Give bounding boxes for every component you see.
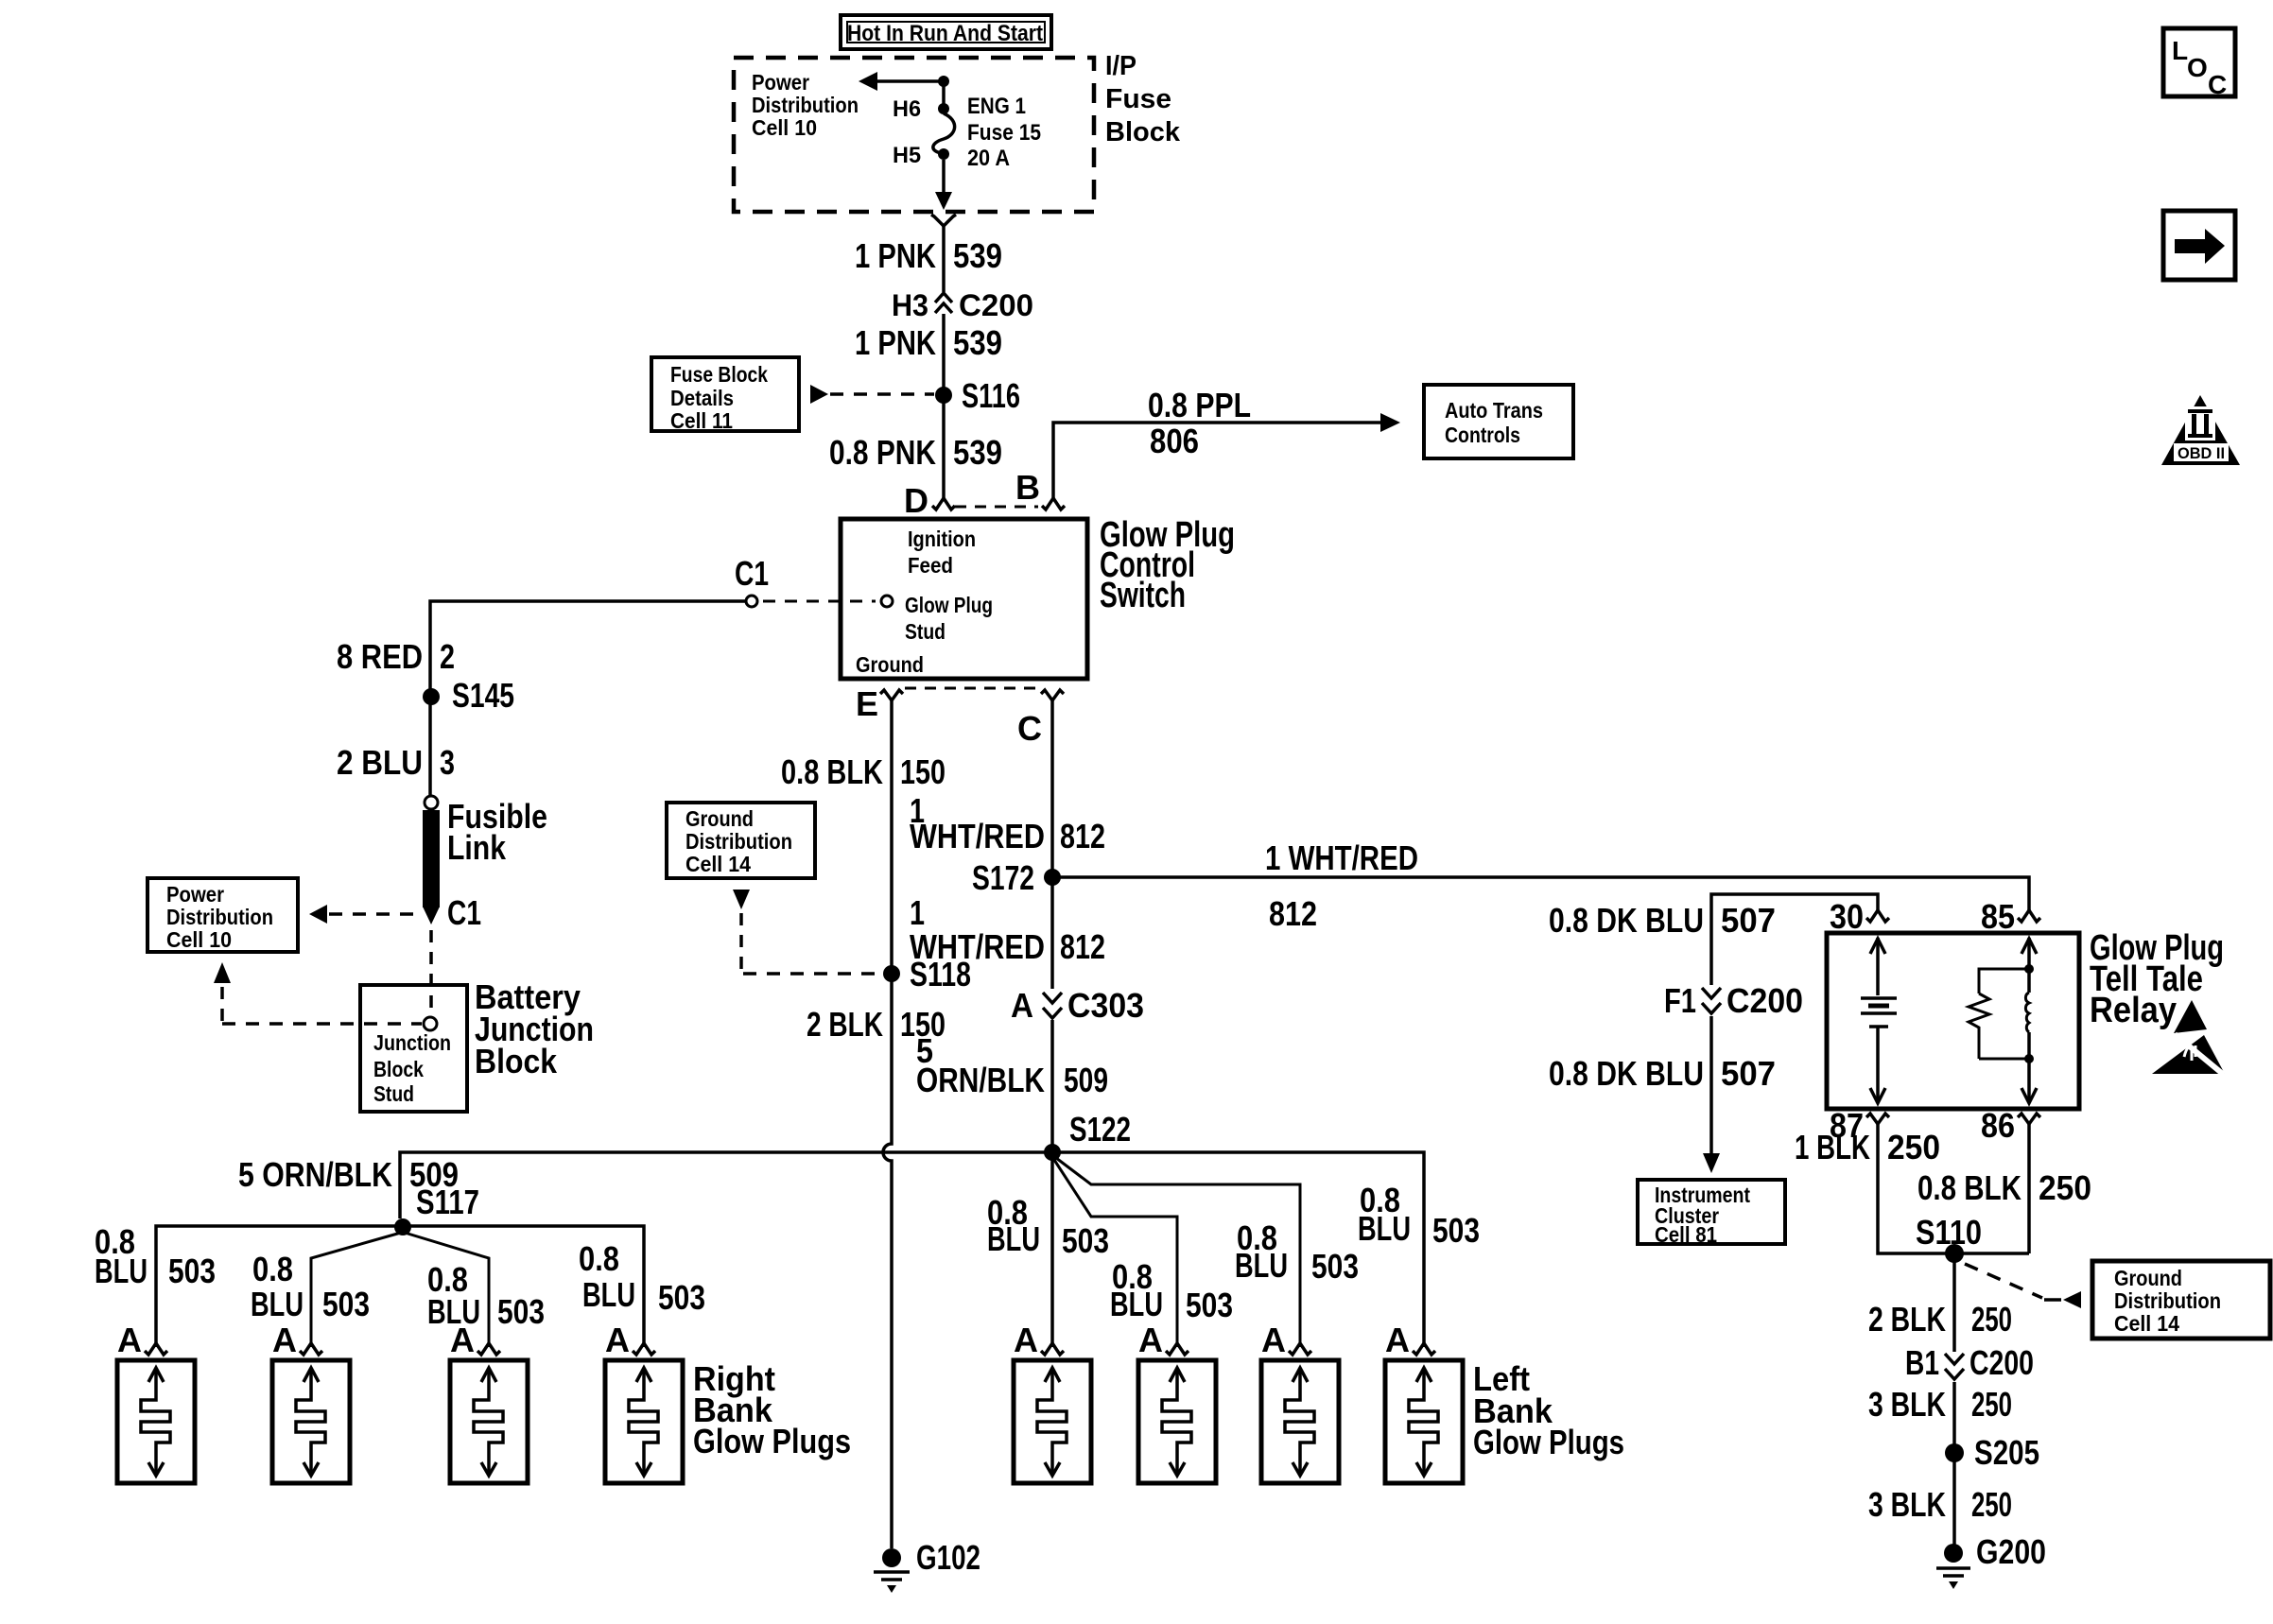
- glow plug left bank plug 4: [1385, 1360, 1463, 1483]
- svg-text:0.8 PNK: 0.8 PNK: [829, 433, 936, 472]
- svg-text:Cell 14: Cell 14: [685, 852, 751, 876]
- label 0.8 BLU 503 (left bank 3): [1235, 1218, 1359, 1286]
- splice S122: [1044, 1144, 1061, 1161]
- svg-text:WHT/RED: WHT/RED: [910, 927, 1045, 966]
- svg-text:Fuse: Fuse: [1105, 84, 1171, 114]
- connector A (left bank plug 3): [1289, 1343, 1311, 1355]
- splice S118: [883, 965, 900, 982]
- svg-text:Block: Block: [475, 1042, 558, 1080]
- svg-text:Glow Plugs: Glow Plugs: [693, 1422, 851, 1460]
- svg-text:1 PNK: 1 PNK: [855, 323, 936, 362]
- wire fuse feed to power distribution with arrow: [859, 72, 944, 91]
- dashed ref line junction block to Power Distribution: [214, 962, 422, 1024]
- svg-text:539: 539: [953, 323, 1002, 362]
- label 0.8 PPL 806: [1148, 386, 1251, 460]
- connector A C303 (double chevron): [1043, 993, 1062, 1018]
- svg-text:C200: C200: [1969, 1343, 2034, 1382]
- svg-text:C200: C200: [1726, 981, 1803, 1020]
- svg-text:250: 250: [1971, 1485, 2012, 1524]
- svg-text:Distribution: Distribution: [2114, 1288, 2221, 1313]
- splice S172: [1044, 869, 1061, 886]
- connector pin 30: [1866, 910, 1889, 922]
- label 8 RED 2: [337, 637, 455, 676]
- svg-text:A: A: [1014, 1321, 1038, 1359]
- dashed connector line E-C: [905, 687, 1038, 690]
- svg-text:509: 509: [1064, 1061, 1108, 1099]
- svg-text:539: 539: [953, 236, 1002, 275]
- glow plug right bank plug 1: [117, 1360, 195, 1483]
- label 2 BLK 250: [1868, 1300, 2012, 1339]
- splice S205: [1945, 1443, 1964, 1462]
- wire S117 to right bank plug 3: [405, 1233, 489, 1347]
- label 3 BLK 250 (upper): [1868, 1385, 2012, 1424]
- connector pin B: [1042, 498, 1065, 510]
- wire 8 RED to C1 stud: [430, 601, 746, 796]
- svg-text:539: 539: [953, 433, 1002, 472]
- glow plug tell tale relay box: [1827, 933, 2079, 1109]
- svg-text:B1: B1: [1905, 1343, 1939, 1382]
- connector A (left bank plug 4): [1413, 1343, 1435, 1355]
- svg-text:250: 250: [1971, 1300, 2012, 1339]
- svg-text:L: L: [2172, 36, 2188, 65]
- svg-text:C1: C1: [735, 554, 769, 593]
- svg-text:2 BLK: 2 BLK: [1868, 1300, 1946, 1339]
- svg-text:Ground: Ground: [856, 652, 924, 677]
- forward arrow icon: [2163, 211, 2235, 280]
- ground G102: [874, 1548, 910, 1593]
- connector pin D: [932, 498, 955, 510]
- svg-text:503: 503: [1311, 1247, 1359, 1286]
- svg-text:503: 503: [497, 1292, 545, 1331]
- wire 0.8 BLK / 2 BLK ground run E to G102 (hops ORN/BLK bus): [883, 700, 892, 1548]
- svg-text:503: 503: [1432, 1211, 1480, 1250]
- svg-text:0.8 DK BLU: 0.8 DK BLU: [1549, 901, 1704, 940]
- svg-text:3 BLK: 3 BLK: [1868, 1485, 1946, 1524]
- svg-text:BLU: BLU: [251, 1285, 304, 1323]
- svg-text:BLU: BLU: [1235, 1246, 1288, 1285]
- svg-text:D: D: [904, 481, 928, 520]
- svg-text:3 BLK: 3 BLK: [1868, 1385, 1946, 1424]
- glow plug right bank plug 3: [450, 1360, 528, 1483]
- svg-text:Controls: Controls: [1445, 423, 1520, 447]
- svg-text:I/P: I/P: [1105, 51, 1136, 81]
- switch label Glow Plug Stud: [905, 593, 993, 644]
- junction block stud circle: [424, 1017, 437, 1030]
- svg-text:Switch: Switch: [1100, 576, 1186, 615]
- wire S122 to left bank plug 3: [1056, 1158, 1300, 1347]
- svg-text:503: 503: [1062, 1221, 1109, 1260]
- connector pin 86: [2018, 1114, 2040, 1124]
- label 1 PNK 539: [855, 236, 1002, 275]
- svg-text:BLU: BLU: [1358, 1209, 1411, 1248]
- svg-text:A: A: [450, 1321, 475, 1359]
- switch label Ignition Feed: [908, 527, 976, 578]
- svg-text:503: 503: [168, 1252, 216, 1290]
- svg-text:S117: S117: [416, 1183, 479, 1221]
- value label ENG 1 Fuse 15 20 A: [967, 94, 1041, 171]
- wire 1 PNK 539 lower segment: [942, 314, 946, 498]
- svg-text:0.8 DK BLU: 0.8 DK BLU: [1549, 1054, 1704, 1093]
- svg-text:Distribution: Distribution: [685, 829, 792, 854]
- svg-text:5 ORN/BLK: 5 ORN/BLK: [238, 1155, 392, 1194]
- svg-text:250: 250: [1971, 1385, 2012, 1424]
- label 2 BLK 150: [807, 1005, 946, 1044]
- wire 3 BLK 250 to G200: [1952, 1382, 1956, 1548]
- svg-text:Ground: Ground: [2114, 1266, 2182, 1290]
- svg-text:30: 30: [1830, 897, 1864, 936]
- label 0.8 BLK 250: [1917, 1168, 2091, 1207]
- svg-text:85: 85: [1981, 897, 2015, 936]
- fuse ENG 1 Fuse 15 20 A (squiggle symbol): [933, 113, 955, 153]
- svg-text:1 BLK: 1 BLK: [1795, 1128, 1870, 1166]
- svg-text:A: A: [117, 1321, 142, 1359]
- ground G200: [1936, 1544, 1970, 1589]
- svg-text:86: 86: [1981, 1106, 2015, 1145]
- label Junction Block Stud: [373, 1030, 451, 1106]
- svg-text:G102: G102: [916, 1538, 980, 1577]
- svg-text:H5: H5: [893, 143, 921, 168]
- splice S117: [394, 1218, 411, 1235]
- svg-text:1 WHT/RED: 1 WHT/RED: [1265, 838, 1418, 877]
- svg-text:G200: G200: [1976, 1532, 2046, 1571]
- svg-text:OBD II: OBD II: [2178, 444, 2225, 462]
- wire 0.8 BLK 250 pin 86 to S110: [2027, 1123, 2031, 1253]
- ref box Ground Distribution Cell 14: [667, 803, 815, 878]
- svg-text:S205: S205: [1974, 1433, 2039, 1472]
- svg-text:Ground: Ground: [685, 806, 754, 831]
- svg-text:Fuse Block: Fuse Block: [670, 362, 768, 387]
- svg-text:20 A: 20 A: [967, 146, 1010, 171]
- label 1 BLK 250: [1795, 1128, 1940, 1166]
- splice S116: [935, 387, 952, 404]
- label 1 WHT/RED 812 (upper): [910, 791, 1105, 855]
- ref box Ground Distribution Cell 14 (right): [2092, 1261, 2270, 1339]
- relay contact element (30-87): [1861, 938, 1897, 1103]
- title Right Bank Glow Plugs: [693, 1359, 851, 1460]
- label 5 ORN/BLK 509: [916, 1031, 1108, 1099]
- glow plug left bank plug 1: [1014, 1360, 1091, 1483]
- connector A (right bank plug 4): [633, 1343, 655, 1355]
- ref box Auto Trans Controls: [1424, 385, 1573, 458]
- svg-text:O: O: [2187, 53, 2208, 82]
- svg-text:C: C: [1017, 709, 1042, 748]
- label 0.8 PNK 539: [829, 433, 1002, 472]
- wire 1 BLK 250 pin 87 to S110: [1878, 1123, 2029, 1253]
- svg-text:Glow Plugs: Glow Plugs: [1473, 1423, 1624, 1461]
- svg-text:Cell 14: Cell 14: [2114, 1311, 2179, 1336]
- svg-text:1 PNK: 1 PNK: [855, 236, 936, 275]
- svg-text:Junction: Junction: [373, 1030, 451, 1055]
- glow plug left bank plug 3: [1261, 1360, 1339, 1483]
- svg-text:150: 150: [900, 752, 946, 791]
- dashed ref line S116 to Fuse Block Details: [810, 385, 934, 404]
- svg-text:Cell 81: Cell 81: [1655, 1222, 1717, 1247]
- svg-text:A: A: [1261, 1321, 1286, 1359]
- svg-text:S110: S110: [1916, 1213, 1982, 1252]
- svg-text:C1: C1: [447, 893, 481, 932]
- connector A (right bank plug 1): [145, 1343, 167, 1355]
- wire 2 BLK 250 S110 to B1: [1952, 1253, 1956, 1352]
- wire 0.8 DK BLU to instrument cluster (arrow): [1703, 1016, 1720, 1173]
- svg-text:S122: S122: [1069, 1110, 1131, 1149]
- wire fuse output with arrow down: [935, 160, 952, 210]
- svg-text:507: 507: [1721, 901, 1776, 940]
- label 5 ORN/BLK 509 (bus): [238, 1155, 459, 1194]
- ref box Power Distribution Cell 10: [147, 878, 298, 952]
- label 2 BLU 3: [337, 743, 455, 782]
- svg-text:812: 812: [1060, 927, 1105, 966]
- ref Power Distribution Cell 10 (inside fuse block): [752, 70, 859, 140]
- LOC legend icon: [2163, 28, 2235, 99]
- dashed ref line C1 to Power Distribution: [309, 905, 421, 924]
- svg-text:Glow Plug: Glow Plug: [905, 593, 993, 617]
- label 1 WHT/RED 812 (long run): [1265, 838, 1418, 933]
- glow plug right bank plug 2: [272, 1360, 350, 1483]
- svg-text:806: 806: [1150, 422, 1199, 460]
- svg-text:2 BLK: 2 BLK: [807, 1005, 883, 1044]
- wire S117 to right bank plug 4: [403, 1226, 644, 1347]
- glow plug right bank plug 4: [605, 1360, 683, 1483]
- wire 0.8 DK BLU pin 30 to F1: [1711, 894, 1878, 985]
- svg-text:BLU: BLU: [987, 1219, 1040, 1258]
- OBD II icon: [2161, 395, 2240, 465]
- connector A (left bank plug 2): [1166, 1343, 1189, 1355]
- svg-text:Stud: Stud: [373, 1081, 414, 1106]
- svg-text:812: 812: [1269, 894, 1317, 933]
- svg-text:Hot In Run And Start: Hot In Run And Start: [847, 21, 1043, 46]
- svg-text:2 BLU: 2 BLU: [337, 743, 423, 782]
- svg-text:A: A: [1385, 1321, 1410, 1359]
- svg-text:Auto Trans: Auto Trans: [1445, 398, 1543, 423]
- wire S117 to right bank plug 1: [156, 1226, 403, 1347]
- svg-text:0.8 BLK: 0.8 BLK: [1917, 1168, 2021, 1207]
- title Battery Junction Block: [475, 977, 594, 1080]
- wire switch pin C to C303: [1050, 700, 1054, 989]
- label Fusible Link: [447, 797, 547, 867]
- svg-text:Details: Details: [670, 386, 734, 410]
- svg-text:C303: C303: [1067, 986, 1144, 1025]
- svg-text:503: 503: [658, 1278, 705, 1317]
- label 0.8 DK BLU 507 (lower): [1549, 1054, 1776, 1093]
- svg-text:3: 3: [440, 743, 455, 782]
- wire 1 WHT/RED 812 long run to relay pin 85: [1052, 877, 2029, 910]
- connector A (right bank plug 2): [300, 1343, 322, 1355]
- svg-text:1: 1: [910, 893, 925, 932]
- svg-text:WHT/RED: WHT/RED: [910, 817, 1045, 855]
- label 0.8 BLK 150: [781, 752, 946, 791]
- svg-text:B: B: [1015, 468, 1040, 507]
- svg-text:A: A: [605, 1321, 630, 1359]
- svg-text:H6: H6: [893, 96, 921, 122]
- splice S110: [1945, 1244, 1964, 1263]
- svg-text:BLU: BLU: [582, 1275, 635, 1314]
- ref box Fuse Block Details Cell 11: [651, 357, 799, 433]
- svg-text:H3: H3: [892, 288, 928, 322]
- wire 1 PNK 539 upper segment: [942, 226, 946, 292]
- svg-text:812: 812: [1060, 817, 1105, 855]
- label I/P Fuse Block: [1105, 51, 1181, 147]
- connector H3 C200 (double chevron): [935, 293, 952, 313]
- label 1 PNK 539 below C200: [855, 323, 1002, 362]
- connector pin 87: [1866, 1114, 1889, 1124]
- svg-text:8 RED: 8 RED: [337, 637, 423, 676]
- svg-text:503: 503: [322, 1285, 370, 1323]
- svg-text:Distribution: Distribution: [166, 905, 273, 929]
- svg-text:A: A: [272, 1321, 297, 1359]
- svg-text:0.8: 0.8: [579, 1239, 619, 1278]
- svg-text:BLU: BLU: [95, 1252, 147, 1290]
- label 0.8 BLU 503 (left bank 4): [1358, 1181, 1480, 1250]
- connector pin C: [1041, 690, 1064, 700]
- svg-text:250: 250: [1887, 1128, 1940, 1166]
- glow plug control switch box: [841, 519, 1087, 679]
- label 0.8 BLU 503 (right bank 1): [95, 1222, 216, 1290]
- glow plug stud contact with circles: [746, 596, 893, 607]
- label 0.8 BLU 503 (right bank 2): [251, 1250, 370, 1323]
- wire S117 to right bank plug 2: [311, 1233, 401, 1347]
- connector at fuse block output: [931, 215, 956, 226]
- svg-text:Relay: Relay: [2090, 991, 2177, 1030]
- svg-text:E: E: [856, 684, 878, 723]
- svg-text:0.8 PPL: 0.8 PPL: [1148, 386, 1251, 424]
- svg-text:Feed: Feed: [908, 553, 953, 578]
- svg-text:S116: S116: [962, 376, 1020, 415]
- connector pin 85: [2018, 910, 2040, 922]
- I/P fuse block dashed box: [734, 58, 1094, 212]
- label 0.8 BLU 503 (left bank 2): [1110, 1257, 1233, 1324]
- label 1 WHT/RED 812 (lower): [910, 893, 1105, 966]
- svg-text:Cell 11: Cell 11: [670, 408, 733, 433]
- wire junction to H6: [942, 81, 946, 106]
- svg-text:BLU: BLU: [1110, 1285, 1163, 1323]
- svg-text:0.8: 0.8: [252, 1250, 293, 1288]
- svg-text:Distribution: Distribution: [752, 93, 859, 117]
- battery junction block box: [360, 985, 467, 1112]
- svg-text:A: A: [1011, 986, 1033, 1025]
- svg-text:Power: Power: [166, 882, 224, 907]
- svg-text:507: 507: [1721, 1054, 1776, 1093]
- wire main 5 ORN/BLK bus to left bank plug 4: [400, 1152, 1424, 1347]
- relay coil and resistor (85-86): [1969, 938, 2037, 1103]
- power label box Hot In Run And Start: [841, 15, 1051, 49]
- title Glow Plug Control Switch: [1100, 515, 1235, 615]
- ESD sensitive symbol: [2152, 1000, 2225, 1075]
- wire S122 to left bank plug 2: [1054, 1160, 1177, 1347]
- pin H5 terminal dot: [938, 148, 949, 160]
- wire 5 ORN/BLK to S122 and left bank plug 1: [1050, 1020, 1054, 1347]
- connector F1 C200 (double chevron): [1702, 988, 1721, 1013]
- pin H6 terminal dot: [938, 103, 949, 114]
- svg-text:ENG 1: ENG 1: [967, 94, 1026, 119]
- svg-text:A: A: [1138, 1321, 1163, 1359]
- svg-text:Cell 10: Cell 10: [752, 115, 817, 140]
- label 0.8 BLU 503 (right bank 3): [427, 1260, 545, 1331]
- svg-text:250: 250: [2039, 1168, 2091, 1207]
- svg-text:S145: S145: [452, 676, 514, 715]
- label 0.8 BLU 503 (right bank 4): [579, 1239, 705, 1317]
- fusible link: [423, 796, 440, 924]
- svg-text:Cell 10: Cell 10: [166, 927, 232, 952]
- svg-text:F1: F1: [1664, 981, 1696, 1020]
- svg-text:Block: Block: [1105, 117, 1181, 147]
- connector B1 C200 (double chevron): [1945, 1354, 1964, 1379]
- splice S145: [423, 688, 440, 705]
- dashed ref line S110 to Ground Distribution: [1965, 1264, 2081, 1308]
- label 3 BLK 250 (lower): [1868, 1485, 2012, 1524]
- svg-text:0.8 BLK: 0.8 BLK: [781, 752, 883, 791]
- svg-text:C: C: [2208, 70, 2227, 99]
- connector A (left bank plug 1): [1041, 1343, 1064, 1355]
- svg-text:2: 2: [440, 637, 455, 676]
- label 0.8 BLU 503 (left bank 1): [987, 1193, 1109, 1260]
- junction dot: [938, 76, 949, 87]
- connector pin E: [880, 690, 903, 700]
- ref box Instrument Cluster Cell 81: [1638, 1180, 1785, 1247]
- svg-text:Ignition: Ignition: [908, 527, 976, 551]
- wire 0.8 PPL to auto trans controls: [1053, 413, 1400, 498]
- glow plug left bank plug 2: [1138, 1360, 1216, 1483]
- title Glow Plug Tell Tale Relay: [2090, 928, 2224, 1030]
- svg-text:503: 503: [1186, 1286, 1233, 1324]
- dashed ref line Ground Distribution to S118: [733, 890, 879, 974]
- svg-text:ORN/BLK: ORN/BLK: [916, 1061, 1045, 1099]
- svg-text:Block: Block: [373, 1057, 424, 1081]
- dashed connector line D-B: [955, 506, 1038, 509]
- label 0.8 DK BLU 507 (upper): [1549, 901, 1776, 940]
- svg-text:Stud: Stud: [905, 619, 946, 644]
- svg-text:Link: Link: [447, 828, 507, 867]
- title Left Bank Glow Plugs: [1473, 1359, 1624, 1461]
- svg-text:Power: Power: [752, 70, 809, 95]
- svg-text:S172: S172: [972, 858, 1034, 897]
- connector A (right bank plug 3): [477, 1343, 500, 1355]
- dashed wire C1 to junction block stud: [429, 930, 433, 1015]
- svg-text:C200: C200: [959, 288, 1033, 322]
- svg-text:Fuse 15: Fuse 15: [967, 120, 1041, 146]
